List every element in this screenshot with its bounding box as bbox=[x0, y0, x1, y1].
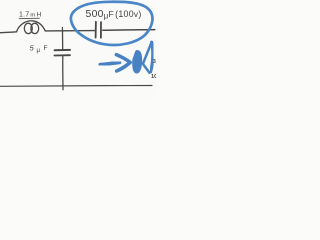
svg-text:500μF(100v): 500μF(100v) bbox=[86, 9, 142, 21]
blue triangle right bar bbox=[151, 42, 153, 72]
svg-text:1.7mH: 1.7mH bbox=[19, 12, 41, 19]
capacitor C2 top plate bbox=[55, 49, 70, 51]
inductor L1 arch bbox=[17, 21, 46, 32]
paper noise bbox=[0, 0, 156, 100]
junction tick at node A bbox=[61, 27, 63, 31]
top wire right segment bbox=[103, 29, 155, 32]
capacitor C1 left plate bbox=[95, 22, 97, 38]
label underline bbox=[19, 17, 40, 20]
blue arrow shaft bbox=[100, 62, 119, 64]
inductor L1 loop 1 bbox=[24, 23, 32, 33]
blue triangle outline annotation bbox=[143, 42, 152, 72]
bottom wire bbox=[0, 85, 152, 88]
shunt wire upper segment bbox=[62, 32, 64, 50]
blue blob annotation bbox=[132, 50, 142, 74]
svg-text:3: 3 bbox=[153, 59, 156, 65]
wire top-left segment bbox=[0, 32, 17, 33]
capacitor C1 right plate bbox=[100, 22, 102, 38]
inductor L1 loop 2 bbox=[31, 23, 39, 33]
svg-text:μ: μ bbox=[37, 48, 41, 54]
top wire middle segment bbox=[45, 30, 94, 32]
svg-text:1G: 1G bbox=[151, 74, 156, 80]
blue ellipse annotation around C1 label bbox=[71, 2, 153, 45]
svg-text:F: F bbox=[44, 45, 48, 52]
blue arrow head bbox=[116, 55, 130, 71]
shunt wire lower segment bbox=[62, 56, 64, 90]
capacitor C2 bottom plate bbox=[54, 54, 70, 56]
